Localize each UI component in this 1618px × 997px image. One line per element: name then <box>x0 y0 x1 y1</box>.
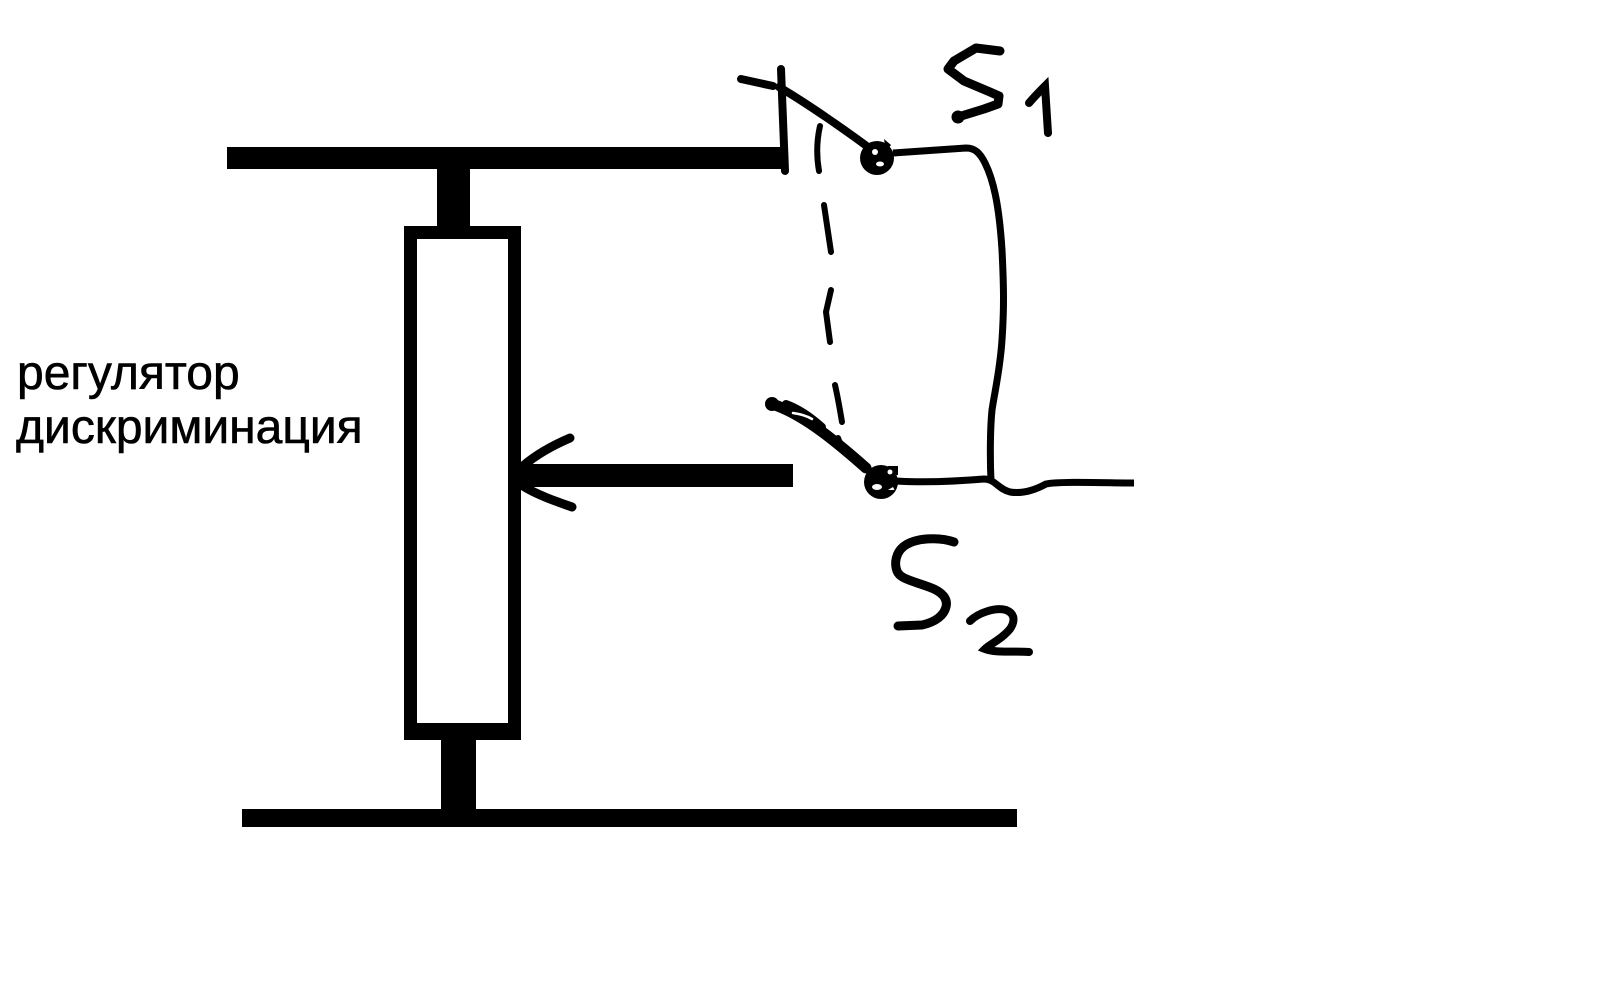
switch S2 lever arm (thick hand stroke) <box>772 404 866 468</box>
svg-text:регулятор: регулятор <box>17 347 240 400</box>
wiper arrowhead barb lower <box>523 486 572 507</box>
wire: stub from potentiometer to bottom bus <box>441 735 476 815</box>
switch S1 lever: vertical tick <box>781 69 785 171</box>
wire: top horizontal bus <box>227 147 786 169</box>
ganged-switch dashed mechanical link <box>817 126 843 451</box>
label S2: letter S (hand-drawn) <box>896 539 954 626</box>
white sliver inside lever stroke <box>793 413 812 419</box>
wire: stub from top bus to potentiometer <box>437 165 470 235</box>
label S1: subscript 1 (hand-drawn) <box>1029 86 1048 133</box>
wire: from S1 terminal right then down to junction <box>893 148 1004 481</box>
switch S1 lever: short lead at left <box>741 79 773 86</box>
potentiometer body (регулятор дискриминация) <box>411 233 515 731</box>
switch S2 terminal contact <box>864 465 898 499</box>
switch S2 lever end blob <box>765 397 779 411</box>
label S2: subscript 2 (hand-drawn) <box>970 609 1029 652</box>
potentiometer bottom border (thicker) <box>404 723 521 740</box>
wire: from S2 terminal to the right output lead <box>896 479 1134 493</box>
wiper arrow shaft <box>520 464 793 487</box>
wire: bottom horizontal bus <box>242 809 1017 827</box>
switch S1 terminal contact <box>860 139 894 175</box>
switch S1 lever arm <box>779 87 872 150</box>
label S1: letter S (hand-drawn) <box>948 48 1000 117</box>
wiper arrowhead barb upper <box>523 438 570 466</box>
svg-text:дискриминация: дискриминация <box>16 401 363 454</box>
